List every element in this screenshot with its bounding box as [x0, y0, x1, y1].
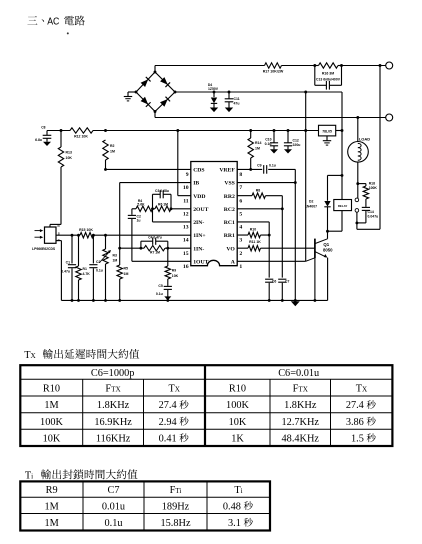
svg-text:1OUT: 1OUT	[193, 259, 208, 265]
wire pin5 RC2	[237, 208, 282, 210]
svg-text:VDD: VDD	[193, 194, 205, 200]
wire load to contact	[356, 162, 359, 198]
svg-text:8: 8	[239, 172, 242, 178]
svg-text:10K: 10K	[66, 156, 73, 160]
svg-text:1M: 1M	[255, 146, 260, 150]
R7 label	[150, 251, 160, 255]
VR arrow	[100, 250, 111, 262]
title 三、AC 電路	[27, 16, 84, 28]
wire relay bottom	[326, 211, 342, 233]
svg-text:100K: 100K	[40, 417, 63, 428]
R18 label	[369, 181, 378, 190]
svg-text:CDS: CDS	[193, 168, 204, 174]
svg-text:1.8KHz: 1.8KHz	[97, 400, 130, 411]
wire pin11 VDD	[178, 131, 191, 196]
svg-text:3.1: 3.1	[228, 518, 241, 529]
svg-text:C3 0.68u: C3 0.68u	[155, 189, 169, 193]
svg-text:15.8Hz: 15.8Hz	[160, 518, 190, 529]
svg-text:1u: 1u	[137, 219, 141, 223]
svg-text:10K: 10K	[172, 274, 179, 278]
relay coil RY1	[334, 200, 352, 211]
table Tx grid	[20, 365, 392, 446]
capacitor C9	[264, 165, 267, 174]
svg-text:189Hz: 189Hz	[162, 501, 190, 512]
svg-text:RELAY: RELAY	[338, 204, 348, 208]
relay contact SW	[355, 198, 359, 212]
capacitor C5	[164, 286, 172, 297]
svg-text:S: S	[58, 232, 60, 236]
svg-text:R9: R9	[46, 485, 58, 496]
ground C11	[225, 108, 233, 113]
svg-text:16.9KHz: 16.9KHz	[94, 417, 132, 428]
U1 pin labels	[183, 168, 242, 270]
svg-text:RR1: RR1	[224, 233, 235, 239]
svg-text:C5: C5	[158, 284, 162, 288]
svg-text:1M: 1M	[110, 149, 115, 153]
wire contact to line L	[357, 66, 380, 230]
svg-text:100K: 100K	[369, 186, 378, 190]
svg-text:C1: C1	[66, 261, 70, 265]
svg-text:Ti: Ti	[234, 485, 242, 496]
C2b label	[96, 260, 103, 273]
svg-text:C7: C7	[107, 485, 119, 496]
svg-text:0.47u: 0.47u	[61, 269, 70, 273]
svg-text:1IN-: 1IN-	[193, 246, 204, 252]
svg-text:15: 15	[183, 251, 189, 257]
wire VDD rail a	[47, 129, 70, 132]
R8 label	[256, 189, 261, 193]
svg-text:R3: R3	[113, 254, 117, 258]
wire AC bottom rail	[155, 117, 386, 119]
svg-text:C13 6n8u/400V: C13 6n8u/400V	[316, 78, 341, 82]
R15 label	[79, 228, 93, 232]
svg-text:27.4: 27.4	[346, 400, 364, 411]
resistor R16	[315, 63, 342, 68]
node dot load tap	[356, 116, 359, 119]
svg-text:TX: TX	[169, 384, 181, 395]
svg-text:8050: 8050	[323, 247, 333, 252]
svg-text:FTi: FTi	[170, 485, 182, 496]
resistor R15	[80, 233, 93, 238]
wire pin1 A	[237, 260, 306, 262]
R1 label	[83, 267, 91, 276]
resistor R17	[265, 63, 282, 68]
svg-text:LOAD: LOAD	[359, 136, 370, 141]
svg-text:100K: 100K	[226, 400, 249, 411]
C3 label	[155, 189, 169, 193]
wire bridge bottom to line	[154, 112, 156, 118]
table Ti data	[44, 501, 252, 529]
svg-text:11: 11	[183, 198, 189, 204]
resistor R12	[70, 128, 93, 133]
svg-text:D2: D2	[309, 200, 313, 204]
svg-text:1M: 1M	[113, 258, 118, 262]
C4 label	[148, 236, 162, 240]
wire CDS D pin	[50, 224, 61, 227]
resistor R7	[141, 246, 168, 251]
svg-text:C7: C7	[285, 279, 289, 283]
wire pin12 2OUT	[151, 207, 191, 210]
resistor R10	[248, 232, 260, 237]
svg-text:Q1: Q1	[323, 242, 329, 247]
C13 label	[316, 78, 341, 82]
svg-text:R11 1K: R11 1K	[249, 240, 261, 244]
C14 label	[368, 210, 379, 219]
svg-text:0.1u: 0.1u	[269, 163, 276, 167]
svg-text:A: A	[231, 259, 236, 265]
table Tx header row	[43, 384, 368, 395]
op-amp U1 IC body	[191, 162, 237, 266]
svg-text:C10: C10	[265, 137, 271, 141]
svg-text:RR2: RR2	[224, 194, 235, 200]
svg-text:AC: AC	[47, 16, 59, 27]
svg-text:2OUT: 2OUT	[193, 207, 208, 213]
svg-text:R10: R10	[250, 228, 256, 232]
svg-text:3: 3	[239, 238, 242, 244]
wire AC top rail left	[155, 65, 265, 67]
wire pin4 RC1	[237, 222, 270, 278]
svg-text:47u: 47u	[234, 102, 240, 106]
C12 label	[293, 138, 301, 146]
CDS arrows	[35, 229, 44, 239]
svg-text:R9: R9	[172, 269, 176, 273]
svg-text:0.41: 0.41	[159, 433, 177, 444]
capacitor C2b	[89, 235, 97, 300]
wire contact bottom	[355, 212, 358, 229]
table Tx data	[40, 400, 376, 444]
wire D2 top link	[328, 174, 343, 176]
bridge rectifier D1	[135, 71, 177, 113]
svg-text:Ti: Ti	[25, 470, 33, 481]
load M1	[348, 142, 369, 163]
svg-text:9: 9	[186, 172, 189, 178]
C9 label	[257, 163, 276, 167]
svg-text:1M: 1M	[124, 272, 129, 276]
svg-text:3.86: 3.86	[346, 417, 364, 428]
regulator U2 78L05	[319, 125, 336, 136]
svg-text:R7 1M: R7 1M	[150, 251, 160, 255]
capacitor C4 loop	[141, 238, 168, 249]
capacitor C7	[278, 279, 286, 300]
wire net V+ vertical x305.7	[304, 91, 307, 262]
C5 label	[156, 284, 163, 296]
wire relay feed x342	[341, 92, 343, 200]
resistor R11	[248, 246, 260, 251]
node dots on VDD rail	[104, 129, 307, 132]
CDS pin letters	[58, 224, 61, 242]
capacitor C3 loop	[153, 190, 172, 208]
wire load top	[357, 118, 359, 142]
svg-text:2.94: 2.94	[159, 417, 177, 428]
wire pin14 sense line	[56, 234, 191, 236]
svg-text:4: 4	[239, 225, 242, 231]
wire R7 left link	[120, 247, 141, 249]
svg-text:1Z50V: 1Z50V	[208, 87, 219, 91]
svg-text:27.4: 27.4	[159, 400, 177, 411]
svg-text:1N4007: 1N4007	[305, 205, 317, 209]
R9 label	[172, 269, 179, 278]
svg-text:220u: 220u	[293, 143, 301, 147]
svg-text:C6: C6	[272, 279, 276, 283]
C7 label	[285, 279, 289, 283]
svg-text:VSS: VSS	[224, 181, 234, 187]
Q1 label	[323, 242, 333, 253]
wire-end marker C5 to rail	[164, 296, 171, 301]
capacitor C14	[362, 207, 370, 223]
svg-text:R8: R8	[256, 189, 261, 193]
D2 label	[305, 200, 317, 209]
ground rail dots	[71, 299, 317, 302]
svg-text:1.5: 1.5	[351, 433, 364, 444]
capacitor C13 parallel loop	[313, 64, 343, 90]
wire pin16 1OUT	[132, 260, 191, 262]
R11 label	[249, 240, 261, 244]
svg-text:1M: 1M	[44, 501, 58, 512]
wire RR2-RC2 drop x282.3	[281, 196, 284, 278]
resistor R5	[117, 265, 122, 300]
zener D4	[211, 91, 217, 108]
wire rectified rail	[175, 91, 342, 93]
svg-text:116KHz: 116KHz	[96, 433, 131, 444]
svg-text:R13: R13	[66, 151, 72, 155]
svg-text:78L05: 78L05	[322, 130, 332, 134]
svg-text:C11: C11	[234, 97, 240, 101]
svg-text:0.1u: 0.1u	[265, 142, 272, 146]
table Ti grid	[20, 481, 270, 530]
terminal L	[386, 62, 393, 69]
R4 label	[137, 199, 145, 207]
svg-text:5.6K: 5.6K	[137, 203, 145, 207]
svg-text:R14: R14	[255, 141, 261, 145]
wire R17 to R16	[282, 65, 315, 67]
resistor R14	[248, 131, 253, 170]
wire pin9 CDS	[104, 168, 191, 171]
wire CDS G pin	[56, 241, 61, 301]
table Ti title	[25, 469, 138, 481]
svg-text:1: 1	[239, 264, 242, 270]
snubber bottom wire	[357, 222, 366, 224]
wire R16 to terminal	[342, 65, 386, 67]
ground at bridge left node	[124, 92, 136, 101]
svg-text:7: 7	[239, 185, 242, 191]
R13 label	[66, 151, 73, 160]
resistor R4	[132, 206, 153, 211]
svg-text:R17 10K/2W: R17 10K/2W	[263, 70, 284, 74]
R2 label	[110, 144, 115, 153]
svg-text:C12: C12	[293, 138, 299, 142]
C11 label	[234, 97, 240, 105]
svg-text:12.7KHz: 12.7KHz	[282, 417, 320, 428]
svg-text:10: 10	[183, 185, 189, 191]
svg-text:VO: VO	[226, 246, 235, 252]
wire pin3 RR1	[237, 234, 269, 236]
svg-text:R1: R1	[83, 267, 87, 271]
svg-text:5: 5	[239, 211, 242, 217]
svg-text:13: 13	[183, 225, 189, 231]
wire bridge top to AC line L	[154, 66, 156, 73]
svg-text:10K: 10K	[43, 433, 61, 444]
table Ti header	[46, 485, 243, 496]
svg-text:C6=1000p: C6=1000p	[91, 368, 135, 379]
svg-text:R16 3M: R16 3M	[322, 72, 334, 76]
VR label	[113, 254, 118, 263]
R6 label	[158, 203, 168, 207]
svg-text:IB: IB	[193, 181, 199, 187]
C10 label	[265, 137, 272, 145]
svg-text:6: 6	[239, 198, 242, 204]
svg-text:R15 10K: R15 10K	[79, 228, 93, 232]
svg-text:C8: C8	[41, 126, 45, 130]
svg-text:FTX: FTX	[105, 384, 121, 395]
svg-text:2IN-: 2IN-	[193, 220, 204, 226]
variable resistor VR	[103, 235, 108, 300]
svg-text:0.1u: 0.1u	[104, 518, 122, 529]
wire A to base diagonal	[306, 258, 315, 261]
svg-text:C9: C9	[257, 163, 261, 167]
svg-text:R18: R18	[369, 181, 375, 185]
svg-text:1K: 1K	[231, 433, 244, 444]
svg-text:RC2: RC2	[224, 207, 235, 213]
capacitor C6	[265, 279, 273, 300]
svg-text:0.1u: 0.1u	[156, 292, 163, 296]
capacitor C10	[270, 131, 278, 154]
svg-text:R5: R5	[124, 267, 129, 271]
svg-text:1M: 1M	[44, 518, 58, 529]
svg-text:RC1: RC1	[224, 220, 235, 226]
C2 label	[137, 214, 141, 222]
svg-text:C4 0.47u: C4 0.47u	[148, 236, 162, 240]
resistor R18	[363, 184, 368, 207]
svg-text:14: 14	[183, 238, 189, 244]
R16 label	[322, 72, 334, 76]
capacitor C11	[225, 91, 234, 108]
photo sensor CDS	[45, 227, 57, 243]
svg-text:R10: R10	[229, 384, 246, 395]
CDS label	[32, 247, 56, 251]
R17 value label	[263, 70, 284, 74]
capacitor C8	[43, 131, 52, 147]
node dot top-right	[379, 64, 382, 67]
svg-text:1IN+: 1IN+	[193, 233, 205, 239]
resistor R6	[153, 206, 172, 211]
svg-text:R2: R2	[110, 144, 115, 148]
wire pin7 VSS	[237, 182, 295, 184]
svg-text:10K: 10K	[229, 417, 247, 428]
snubber top wire	[358, 183, 366, 185]
wire 78L05 out	[336, 129, 344, 132]
wire VSS ground drop x295.3	[294, 169, 297, 300]
table Tx header C6	[91, 368, 319, 379]
svg-text:2: 2	[239, 251, 242, 257]
ground 78L05	[323, 136, 331, 145]
svg-text:TX: TX	[24, 350, 36, 361]
svg-text:48.4KHz: 48.4KHz	[282, 433, 320, 444]
node dot relay top	[341, 174, 344, 177]
svg-text:TX: TX	[356, 384, 368, 395]
svg-text:0.1u: 0.1u	[96, 269, 103, 273]
wire ground rail	[61, 299, 327, 301]
terminal N	[386, 114, 393, 121]
svg-text:4.7K: 4.7K	[83, 272, 91, 276]
capacitor C2	[128, 209, 136, 262]
wire pin13 2IN-	[153, 209, 191, 222]
R10 label	[250, 228, 256, 232]
resistor R9	[165, 248, 170, 286]
node dots sense line	[71, 234, 107, 237]
svg-text:FTX: FTX	[293, 384, 309, 395]
svg-text:6.8u: 6.8u	[35, 138, 42, 142]
LOAD label	[359, 136, 370, 141]
diode D2	[324, 175, 330, 231]
wire pin8 VREF	[237, 168, 295, 171]
wire pin6 RR2	[237, 195, 282, 197]
resistor R8	[252, 193, 265, 198]
C6 label	[272, 279, 276, 283]
wire pin10 IB	[120, 183, 191, 265]
C8 label	[35, 126, 46, 143]
R14 label	[255, 141, 261, 150]
svg-text:R10: R10	[43, 384, 60, 395]
stray period mark	[67, 32, 69, 34]
wire VDD rail b	[93, 130, 319, 132]
svg-text:0.047u: 0.047u	[368, 215, 379, 219]
svg-text:G: G	[58, 238, 61, 242]
table Tx title	[24, 349, 139, 361]
wire pin15 1IN-	[118, 247, 191, 250]
svg-text:LP966E62CDS: LP966E62CDS	[32, 247, 56, 251]
resistor R13	[58, 131, 63, 225]
svg-text:R6 1M: R6 1M	[158, 203, 168, 207]
capacitor C12	[284, 131, 292, 154]
svg-text:0.48: 0.48	[223, 501, 241, 512]
svg-text:C14: C14	[368, 210, 374, 214]
svg-text:1.8KHz: 1.8KHz	[284, 400, 317, 411]
svg-text:12: 12	[183, 211, 189, 217]
D4 label	[208, 83, 219, 91]
R5 label	[124, 267, 129, 276]
svg-text:VREF: VREF	[219, 168, 235, 174]
capacitor C1	[68, 235, 76, 300]
C1 label	[61, 261, 70, 274]
ground D4	[210, 108, 218, 113]
svg-text:16: 16	[183, 264, 189, 270]
svg-text:1M: 1M	[44, 400, 58, 411]
ground symbol main	[291, 301, 300, 306]
transistor Q1	[315, 231, 328, 300]
resistor R1	[76, 235, 81, 300]
svg-text:C6=0.01u: C6=0.01u	[278, 368, 319, 379]
svg-text:0.01u: 0.01u	[102, 501, 125, 512]
svg-text:R12 10K: R12 10K	[74, 135, 88, 139]
resistor R2	[103, 140, 108, 169]
R12 label	[74, 135, 88, 139]
wire pin2 VO	[237, 247, 315, 249]
